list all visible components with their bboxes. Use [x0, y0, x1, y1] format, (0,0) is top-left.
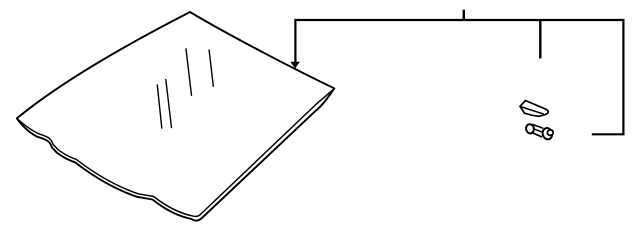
fastener body mid line — [534, 129, 544, 133]
moulding clip crease line — [520, 106, 543, 113]
fastener body top line — [533, 125, 543, 129]
windshield glass outer outline — [17, 12, 335, 221]
reflection line 3 — [186, 49, 192, 96]
arrowhead pointing to glass edge — [290, 62, 300, 69]
windshield glass inner edge (bottom-left thickness line) — [17, 118, 201, 216]
moulding clip (blade shaped part) — [520, 101, 548, 117]
fastener body bottom line — [533, 133, 542, 137]
windshield glass inner edge (bottom-right thickness line) — [201, 90, 332, 214]
reflection line 2 — [166, 79, 172, 127]
fastener head ring — [525, 124, 534, 134]
reflection line 1 — [157, 85, 162, 128]
reflection line 4 — [209, 50, 213, 86]
fastener flange disc — [541, 127, 553, 140]
fastener hub disc — [547, 129, 554, 136]
vertical leader to parts — [539, 20, 541, 58]
callout leader bracket — [295, 20, 623, 134]
tick mark on leader line — [463, 10, 465, 20]
